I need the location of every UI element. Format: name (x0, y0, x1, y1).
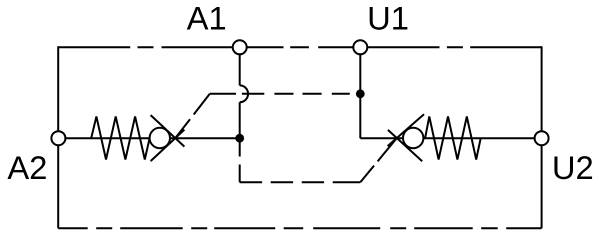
check valve CV1 seat line 1 (151, 115, 185, 147)
enclosure bottom edge (chain line) (58, 227, 541, 229)
spring right (check valve CV2) (425, 117, 481, 160)
wire: A1 vertical drop (lower part, to node A) (239, 102, 241, 138)
enclosure left edge / A2 riser wire (57, 46, 59, 228)
check valve CV2 seat line 1 (388, 114, 424, 146)
pilot line: bottom horizontal (A1 pilot to right valve) (240, 181, 361, 183)
wire: main flow line A2 to node A (58, 137, 239, 139)
enclosure right edge / U2 riser wire (541, 46, 543, 228)
spring left (check valve CV1) (91, 117, 149, 160)
check valve CV2 poppet ball (403, 128, 423, 148)
pilot line: right diagonal to check seat (360, 138, 397, 182)
pilot line: top horizontal (U1 pilot to left valve) (210, 93, 360, 95)
check valve CV1 poppet ball (150, 128, 170, 148)
pilot line: left diagonal to check seat (175, 94, 210, 138)
pilot line: vertical drop from node A (239, 138, 241, 182)
check valve CV2 seat line 2 (388, 130, 422, 161)
wire: A1 vertical drop (upper part, to hop) (239, 47, 241, 85)
label U2 (554, 156, 592, 179)
port A1 (233, 40, 247, 54)
port U1 (353, 40, 367, 54)
label A1 (187, 7, 225, 30)
junction node A (A1 / flow line) (235, 134, 244, 143)
port U2 (535, 131, 549, 145)
wire: U1 vertical drop (359, 47, 361, 138)
enclosure top edge (chain line) (58, 46, 541, 48)
junction node B (U1 / pilot line) (356, 89, 365, 98)
label U1 (370, 7, 408, 30)
label A2 (7, 156, 45, 179)
check valve CV1 seat line 2 (151, 130, 185, 162)
port A2 (51, 131, 65, 145)
wire hop over pilot line (240, 85, 248, 102)
wire: main flow line U1 branch to U2 (360, 137, 541, 139)
